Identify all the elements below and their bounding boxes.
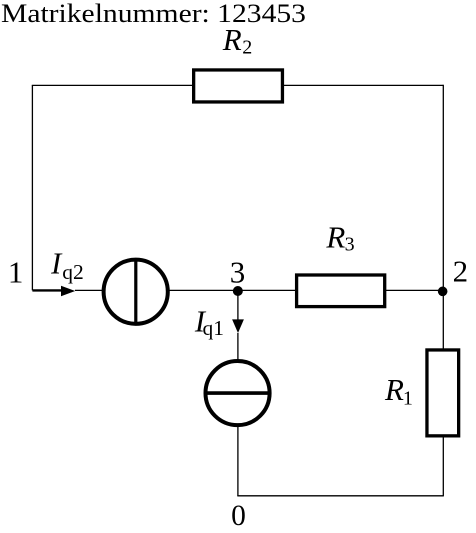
- svg-text:q1: q1: [203, 316, 225, 340]
- resistor R1 body: [427, 350, 459, 436]
- current source Iq2 bar: [134, 258, 137, 325]
- svg-text:2: 2: [453, 253, 469, 288]
- svg-text:2: 2: [242, 36, 252, 58]
- wire R3 to node 2: [385, 289, 444, 291]
- current source Iq1 circle: [206, 361, 270, 425]
- current source Iq2 circle: [104, 260, 168, 324]
- svg-text:3: 3: [345, 233, 355, 255]
- current source Iq1 bar: [204, 391, 271, 395]
- svg-text:R: R: [384, 372, 404, 407]
- node 3 dot: [233, 286, 243, 296]
- svg-text:q2: q2: [62, 260, 84, 284]
- current arrow Iq2 shaft: [32, 289, 63, 291]
- wire Iq1 source to bottom wire: [237, 425, 239, 496]
- wire node 2 down to R1: [442, 290, 444, 350]
- svg-text:1: 1: [8, 255, 24, 290]
- node 2 dot: [438, 287, 448, 297]
- svg-text:1: 1: [403, 388, 413, 410]
- resistor R3 body: [297, 275, 385, 307]
- svg-text:0: 0: [231, 500, 246, 532]
- wire node 3 down to Iq1 arrow: [237, 291, 239, 321]
- wire arrow to Iq2 source: [75, 289, 104, 291]
- wire top right (R2 right terminal to top-right corner): [282, 84, 443, 86]
- wire Iq1 arrow to Iq1 source: [237, 333, 239, 362]
- wire right vertical (top-right corner down to node 2): [442, 85, 444, 291]
- svg-text:R: R: [325, 220, 345, 255]
- wire Iq2 source to R3 (through node 3): [168, 289, 297, 291]
- wire R1 to bottom-right corner: [442, 436, 444, 497]
- svg-text:R: R: [222, 22, 242, 57]
- current arrow Iq2 head: [61, 286, 75, 297]
- wire left vertical (node 1 up to top-left corner): [31, 85, 33, 290]
- svg-text:I: I: [50, 247, 63, 281]
- wire bottom horizontal: [237, 495, 443, 497]
- svg-text:Matrikelnummer: 123453: Matrikelnummer: 123453: [1, 0, 306, 28]
- current arrow Iq1 head: [232, 319, 244, 333]
- wire top left (top-left corner to R2 left terminal): [32, 84, 194, 86]
- svg-text:3: 3: [230, 254, 246, 289]
- resistor R2 body: [194, 70, 283, 102]
